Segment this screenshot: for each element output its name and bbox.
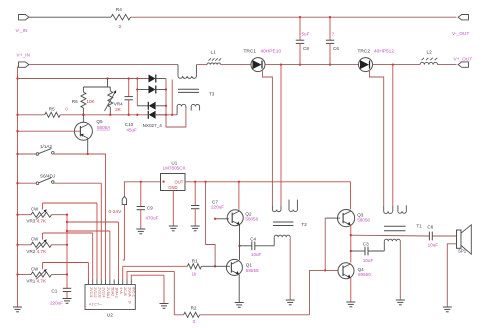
svg-text:C8: C8 bbox=[303, 46, 309, 51]
svg-text:220uF: 220uF bbox=[50, 301, 63, 306]
svg-text:GND: GND bbox=[168, 185, 177, 190]
svg-text:220uF: 220uF bbox=[211, 205, 224, 210]
svg-text:10uF: 10uF bbox=[428, 243, 439, 248]
svg-text:Q5: Q5 bbox=[96, 119, 103, 124]
svg-text:OUT: OUT bbox=[175, 180, 184, 185]
svg-text:1/1A2: 1/1A2 bbox=[40, 144, 52, 149]
svg-text:58555: 58555 bbox=[246, 268, 259, 273]
svg-text:10K: 10K bbox=[86, 99, 95, 104]
svg-text:2V2J4: 2V2J4 bbox=[102, 287, 106, 297]
svg-text:V+_OUT: V+_OUT bbox=[454, 56, 473, 62]
svg-text:2V2J3: 2V2J3 bbox=[97, 287, 101, 297]
svg-text:S6/4DJ: S6/4DJ bbox=[40, 173, 55, 178]
svg-text:T1: T1 bbox=[416, 223, 422, 228]
svg-text:VR3: VR3 bbox=[26, 219, 35, 224]
svg-text:4.7K: 4.7K bbox=[37, 279, 47, 284]
svg-text:58056: 58056 bbox=[357, 218, 370, 223]
svg-text:470uF: 470uF bbox=[145, 215, 158, 220]
svg-text:2V2J1: 2V2J1 bbox=[89, 287, 93, 297]
svg-text:C3: C3 bbox=[363, 241, 369, 246]
svg-text:V+_IN: V+_IN bbox=[17, 52, 31, 58]
svg-text:40HP512: 40HP512 bbox=[374, 49, 394, 55]
svg-text:VR4: VR4 bbox=[114, 101, 123, 106]
svg-text:C9: C9 bbox=[147, 206, 153, 211]
svg-text:VR2: VR2 bbox=[26, 249, 35, 254]
svg-text:4.1'C'7—: 4.1'C'7— bbox=[89, 303, 103, 307]
svg-text:R1: R1 bbox=[192, 258, 198, 263]
svg-text:40HPE10: 40HPE10 bbox=[261, 49, 282, 55]
svg-text:10uF: 10uF bbox=[251, 252, 262, 257]
svg-text:SP1: SP1 bbox=[458, 249, 467, 254]
svg-text:C6: C6 bbox=[427, 224, 433, 229]
svg-text:VR1: VR1 bbox=[26, 279, 35, 284]
svg-text:2V5A1: 2V5A1 bbox=[106, 287, 110, 298]
svg-text:C1: C1 bbox=[51, 289, 57, 294]
svg-text:U2: U2 bbox=[107, 312, 113, 318]
svg-text:2CJ8: 2CJ8 bbox=[123, 287, 127, 295]
svg-text:'O: 'O bbox=[128, 301, 132, 305]
svg-text:R6: R6 bbox=[72, 99, 78, 104]
svg-text:5uF: 5uF bbox=[302, 31, 310, 36]
svg-text:4.7K: 4.7K bbox=[37, 219, 47, 224]
svg-text:4.7K: 4.7K bbox=[37, 249, 47, 254]
svg-text:8VL-1: 8VL-1 bbox=[132, 287, 136, 297]
svg-text:R5: R5 bbox=[49, 107, 55, 112]
svg-text:59550: 59550 bbox=[358, 272, 371, 277]
svg-text:LM7805CX: LM7805CX bbox=[163, 166, 186, 171]
svg-text:L1: L1 bbox=[211, 49, 217, 55]
svg-text:0: 0 bbox=[65, 107, 68, 112]
svg-text:5DA2: 5DA2 bbox=[110, 287, 114, 296]
svg-text:CW: CW bbox=[31, 237, 39, 242]
svg-text:V-_IN: V-_IN bbox=[16, 28, 29, 34]
svg-text:0-24V: 0-24V bbox=[109, 209, 123, 215]
svg-text:R4: R4 bbox=[116, 7, 122, 13]
svg-text:1k: 1k bbox=[192, 272, 198, 277]
svg-text:2GVA: 2GVA bbox=[127, 287, 131, 297]
svg-text:0: 0 bbox=[119, 24, 122, 29]
svg-text:C4: C4 bbox=[250, 236, 256, 241]
svg-text:TRC2: TRC2 bbox=[358, 49, 371, 55]
svg-text:CW: CW bbox=[31, 207, 39, 212]
svg-text:4+A: 4+A bbox=[119, 287, 123, 294]
svg-text:T2: T2 bbox=[301, 222, 307, 227]
svg-text:R2: R2 bbox=[191, 305, 197, 310]
svg-text:T3: T3 bbox=[209, 92, 215, 97]
svg-text:CW: CW bbox=[31, 266, 39, 271]
svg-text:2K: 2K bbox=[115, 107, 122, 112]
svg-text:NX027_4: NX027_4 bbox=[143, 123, 163, 128]
svg-text:TRC1: TRC1 bbox=[244, 49, 257, 55]
svg-text:C10: C10 bbox=[125, 122, 134, 127]
svg-text:2V2J2: 2V2J2 bbox=[93, 287, 97, 297]
svg-text:L2: L2 bbox=[427, 49, 433, 55]
svg-text:?: ? bbox=[332, 31, 335, 36]
svg-text:V-_OUT: V-_OUT bbox=[452, 31, 469, 37]
svg-text:1PA+2: 1PA+2 bbox=[115, 287, 119, 298]
svg-text:0: 0 bbox=[193, 319, 196, 324]
svg-text:45uF: 45uF bbox=[126, 128, 137, 133]
svg-text:5805A: 5805A bbox=[97, 125, 111, 130]
svg-text:58056: 58056 bbox=[245, 216, 258, 221]
svg-text:C6: C6 bbox=[333, 46, 339, 51]
svg-text:10uF: 10uF bbox=[363, 258, 374, 263]
